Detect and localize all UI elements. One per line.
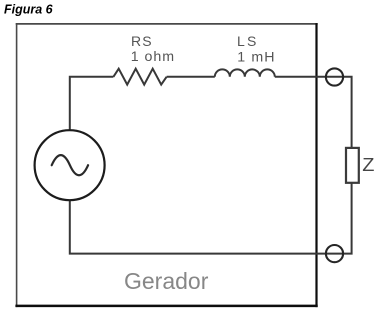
impedance Z [346,148,359,183]
generator box (Gerador enclosure) [15,23,317,307]
svg-text:Gerador: Gerador [124,268,209,294]
svg-text:Figura 6: Figura 6 [4,2,54,16]
inductor LS [215,69,275,76]
wire: inductor to right vertical, through top terminal [275,77,352,148]
terminal (top output node) [326,68,343,85]
sine symbol inside AC source [52,155,88,175]
svg-text:Z: Z [362,155,374,175]
svg-text:1 mH: 1 mH [237,49,275,65]
svg-text:1 ohm: 1 ohm [131,49,175,65]
terminal (bottom output node) [326,245,343,262]
wire: source top to top-left corner to resistor [70,77,114,131]
wire: resistor to inductor [167,76,215,78]
svg-text:RS: RS [131,33,153,49]
resistor RS [113,69,166,85]
wire: Z bottom to bottom run, back to source, through bottom terminal [70,183,352,254]
svg-text:LS: LS [237,33,259,49]
AC source (sinusoidal generator) [35,130,105,200]
